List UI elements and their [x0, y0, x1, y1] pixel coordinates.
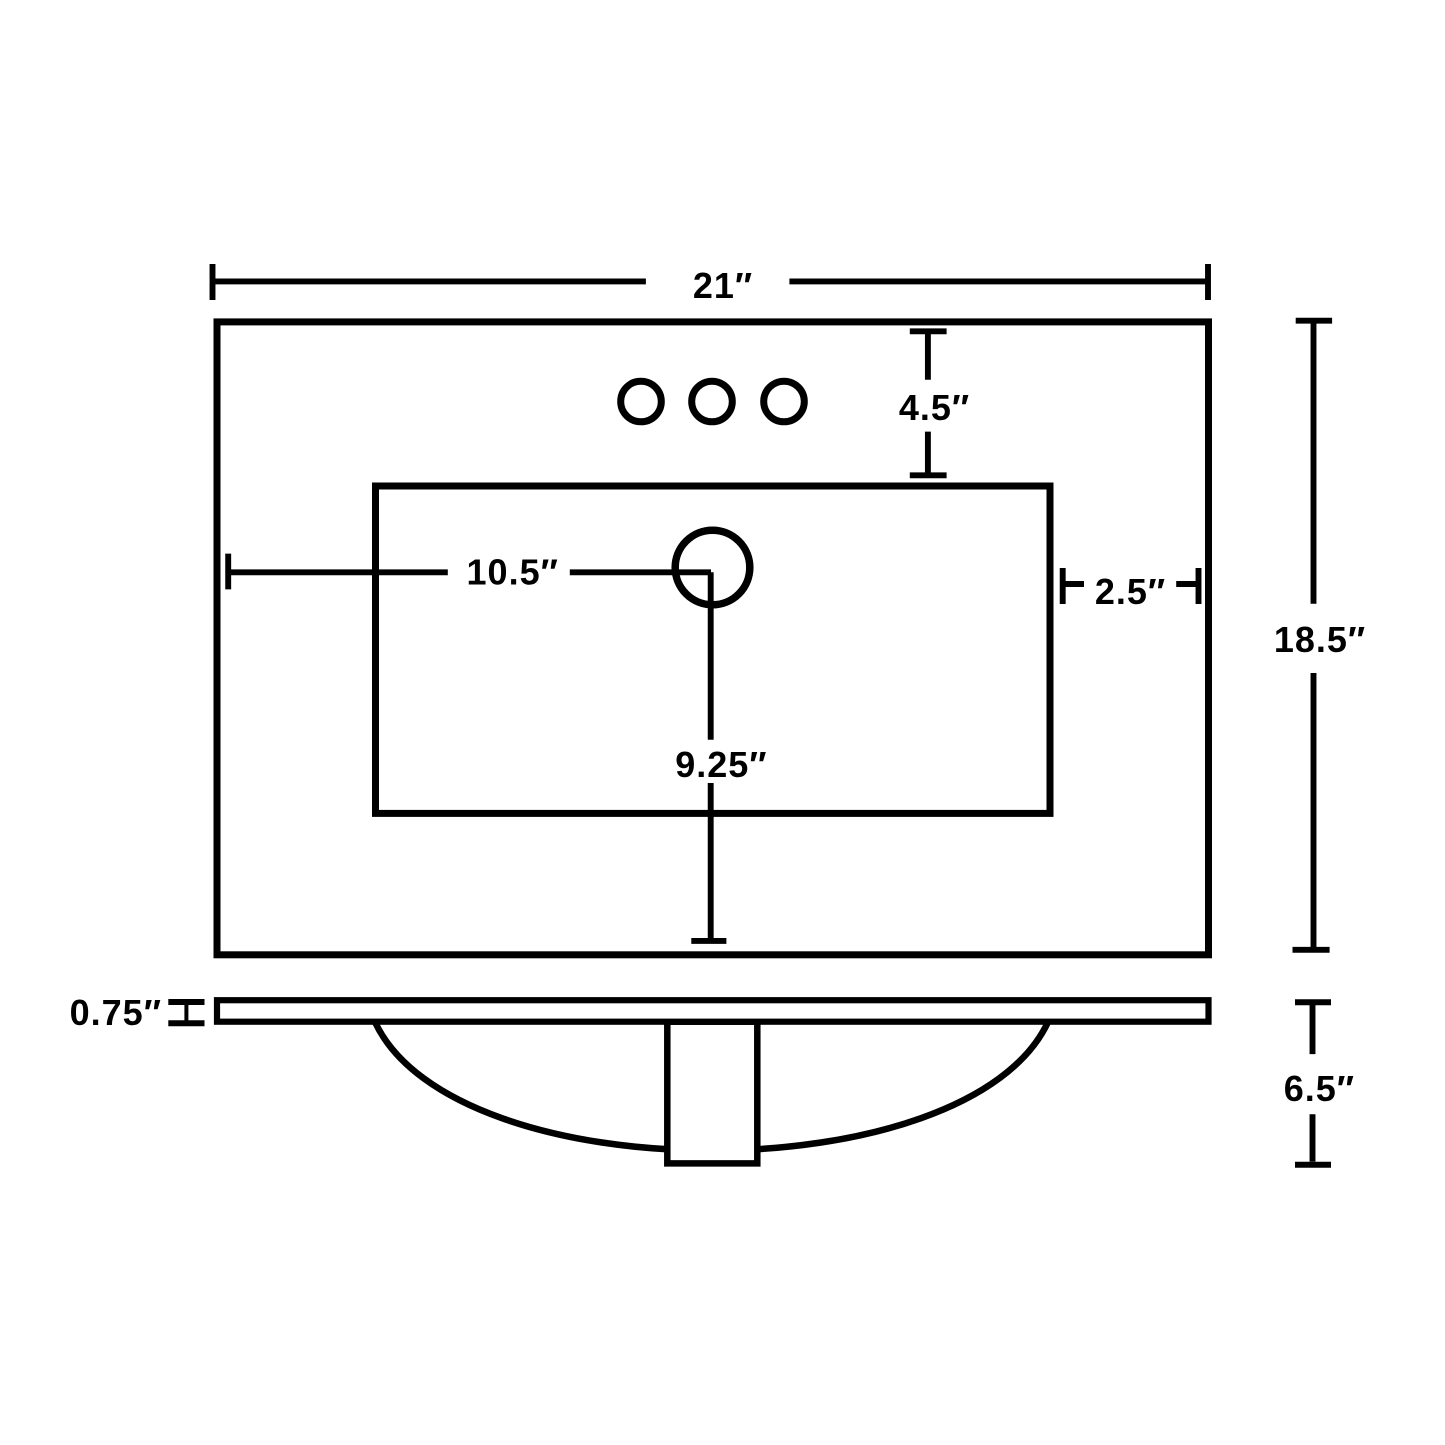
svg-text:6.5″: 6.5″	[1284, 1068, 1355, 1109]
svg-text:18.5″: 18.5″	[1274, 619, 1366, 660]
svg-text:2.5″: 2.5″	[1095, 571, 1166, 612]
svg-text:4.5″: 4.5″	[899, 387, 970, 428]
svg-text:10.5″: 10.5″	[467, 552, 559, 593]
svg-text:0.75″: 0.75″	[70, 992, 162, 1033]
svg-text:21″: 21″	[693, 265, 753, 306]
svg-text:9.25″: 9.25″	[675, 744, 767, 785]
